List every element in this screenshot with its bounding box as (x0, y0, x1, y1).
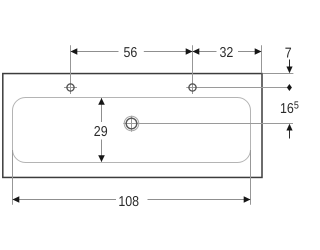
dim line 56 right segment (144, 51, 193, 53)
drain centerline horizontal (y=123.5) (123, 123, 293, 125)
arrow 32 right (255, 48, 262, 55)
svg-text:29: 29 (94, 124, 108, 140)
drain centerline vertical (131, 116, 133, 132)
arrow 32 left (193, 48, 200, 55)
arrow 29 up (98, 98, 105, 105)
crosshair + extension line right faucet hole to diamond (186, 87, 291, 89)
arrow 29 down (98, 155, 105, 162)
svg-text:108: 108 (118, 194, 139, 210)
dim line 108 left segment (13, 199, 117, 201)
crosshair left faucet hole (64, 87, 77, 89)
extension line left faucet hole (vertical x=70.5) (70, 45, 72, 94)
dim 16.5 arrow up (286, 124, 292, 131)
extension line bowl left edge (x=12.5) (12, 150, 14, 205)
extension line right faucet hole (vertical x=192.5) (192, 45, 194, 94)
dim line 108 right segment (148, 199, 251, 201)
washbasin outer rim (3, 74, 262, 178)
extension line basin right edge (vertical x=261.5) (261, 45, 263, 73)
svg-text:165: 165 (280, 100, 299, 117)
dim line 32 right segment (238, 51, 262, 53)
dim 16.5 arrow stem (289, 130, 291, 138)
faucet hole left (67, 84, 74, 91)
extension line basin top edge to right margin (y=73.5) (263, 73, 293, 75)
faucet hole right (189, 84, 196, 91)
dim 7 arrow down (286, 67, 292, 74)
dim line 56 left segment (71, 51, 119, 53)
svg-text:32: 32 (219, 45, 233, 61)
dim line 29 top segment (101, 98, 103, 122)
arrow 56 left (71, 48, 78, 55)
washbasin inner bowl (13, 98, 251, 163)
svg-text:56: 56 (123, 45, 137, 61)
dim 7 arrow stem (289, 60, 291, 69)
svg-text:7: 7 (285, 46, 292, 62)
extension line bowl right edge (x=250.5) (250, 150, 252, 205)
arrow 108 right (244, 196, 251, 203)
dim line 29 bottom segment (101, 140, 103, 162)
drain inner circle (126, 118, 137, 129)
arrow 56 right (186, 48, 193, 55)
arrow 108 left (13, 196, 20, 203)
drain outer circle (124, 116, 139, 131)
dim line 32 left segment (193, 51, 217, 53)
dim 16.5 diamond marker (287, 84, 292, 91)
